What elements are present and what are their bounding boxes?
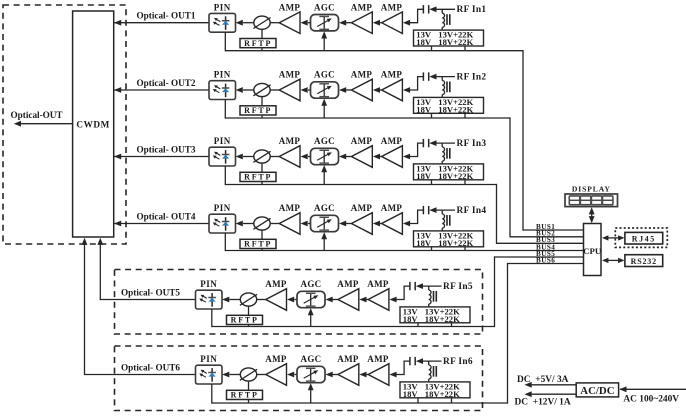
inductor L2: [442, 77, 450, 98]
svg-text:AMP: AMP: [265, 354, 287, 364]
inductor L1: [442, 9, 450, 30]
svg-text:18V: 18V: [416, 171, 432, 181]
RFTP box row 4: [240, 239, 276, 248]
svg-text:18V: 18V: [416, 104, 432, 114]
wire AMP2b to AGC2: [339, 87, 351, 93]
svg-text:RFTP: RFTP: [244, 173, 272, 182]
label PIN5: [200, 279, 217, 289]
wire attenuator 2 control: [261, 97, 263, 118]
wire AGC2 to AMP2a: [301, 87, 312, 93]
capacitor C6: [410, 357, 415, 365]
svg-text:AC/DC: AC/DC: [580, 385, 614, 397]
bias box B5 stubs: [418, 323, 452, 327]
bias selector box B1: [414, 30, 484, 47]
wire rail row4 to BUS4: [432, 250, 584, 252]
wire AMP2c to AMP2b: [373, 87, 382, 93]
label PIN6: [200, 354, 217, 364]
wire AC input: [619, 386, 686, 392]
CPU U7: [583, 224, 602, 276]
label Optical- OUT3: [137, 144, 196, 154]
label RF In6: [443, 357, 473, 367]
wire rail row3 to BUS3: [432, 184, 584, 244]
wire capacitor C1 to AMP1c: [403, 9, 423, 25]
svg-text:18V+22K: 18V+22K: [438, 37, 473, 47]
wire optical output arrow: [14, 121, 73, 127]
label Optical- OUT5: [121, 287, 180, 297]
variable attenuator A6: [240, 368, 257, 381]
amplifier AMP6a: [256, 354, 287, 385]
AGC attenuator U4: [311, 203, 339, 232]
photodiode PIN5: [196, 290, 223, 309]
svg-text:PIN: PIN: [214, 203, 231, 213]
wire AMP1b to AGC1: [339, 20, 351, 26]
RFTP box row 6: [227, 390, 263, 399]
wire PIN5 to CWDM: [97, 238, 195, 300]
AGC attenuator U2: [311, 70, 339, 99]
svg-text:Optical-OUT: Optical-OUT: [11, 110, 63, 120]
wire display to CPU: [589, 207, 595, 223]
wire attenuator 5 control: [248, 306, 250, 326]
label Optical- OUT4: [137, 211, 196, 221]
wire PIN3 to CWDM: [114, 154, 209, 160]
svg-text:AMP: AMP: [367, 354, 389, 364]
svg-text:Optical- OUT2: Optical- OUT2: [137, 78, 196, 88]
AGC6 control wire: [308, 383, 314, 403]
wire rail row2 to BUS2: [432, 117, 584, 237]
wire AGC1 to AMP1a: [301, 20, 312, 26]
amplifier AMP4c: [381, 203, 403, 234]
inductor L5: [429, 286, 437, 307]
wire PIN1 to CWDM: [114, 20, 209, 26]
amplifier AMP3a: [270, 136, 301, 167]
label Optical-OUT: [11, 110, 63, 120]
wire CPU to RJ45: [602, 235, 625, 240]
capacitor C1: [423, 5, 428, 13]
wire capacitor C5 to AMP5c: [389, 286, 409, 302]
svg-text:AMP: AMP: [279, 2, 301, 12]
svg-text:Optical- OUT5: Optical- OUT5: [121, 287, 180, 297]
label PIN1: [214, 2, 231, 12]
amplifier AMP5b: [337, 279, 359, 310]
bias selector box B3: [414, 164, 484, 181]
AGC attenuator U1: [311, 2, 339, 31]
label PIN4: [214, 203, 231, 213]
svg-text:18V+22K: 18V+22K: [438, 104, 473, 114]
RJ45 port: [625, 232, 663, 244]
RFTP box row 5: [227, 315, 263, 324]
svg-text:Optical- OUT1: Optical- OUT1: [137, 11, 196, 21]
svg-text:AMP: AMP: [351, 203, 373, 213]
wire PIN1 bottom to bias rail: [225, 32, 431, 51]
svg-text:AGC: AGC: [314, 2, 335, 12]
label BUS6: [536, 256, 555, 264]
photodiode PIN4: [209, 214, 236, 233]
label DC +5V/3A: [517, 375, 569, 385]
svg-text:AMP: AMP: [381, 136, 403, 146]
amplifier AMP1b: [351, 2, 373, 33]
wire attenuator to PIN4: [236, 221, 254, 227]
bias box B1 stubs: [432, 46, 466, 51]
label PIN2: [214, 70, 231, 80]
wire PIN2 to CWDM: [114, 87, 209, 93]
wire AGC4 to AMP4a: [301, 221, 312, 227]
wire CPU to RS232: [602, 258, 625, 263]
label Optical- OUT2: [137, 78, 196, 88]
svg-text:18V+22K: 18V+22K: [438, 238, 473, 248]
svg-text:RF In5: RF In5: [443, 282, 473, 292]
label PIN3: [214, 136, 231, 146]
label RF In2: [457, 72, 487, 82]
photodiode PIN1: [209, 13, 236, 32]
wire AMP6c to AMP6b: [359, 372, 368, 378]
svg-text:AGC: AGC: [314, 136, 335, 146]
bias selector box B4: [414, 231, 484, 248]
label RF In5: [443, 282, 473, 292]
svg-text:BUS6: BUS6: [536, 256, 555, 264]
amplifier AMP1a: [270, 2, 301, 33]
wire attenuator to PIN3: [236, 154, 254, 160]
svg-text:AMP: AMP: [337, 354, 359, 364]
svg-text:AMP: AMP: [279, 70, 301, 80]
display module: [565, 194, 618, 207]
svg-text:AMP: AMP: [337, 279, 359, 289]
bias selector box B6: [400, 382, 470, 399]
label BUS4: [536, 243, 555, 251]
AGC4 control wire: [321, 232, 327, 250]
wire RF In6 input: [416, 358, 442, 364]
bias box B3 stubs: [432, 180, 466, 185]
wire AMP6b to AGC6: [326, 372, 338, 378]
wire PIN2 bottom to bias rail: [225, 99, 431, 118]
svg-text:Optical- OUT6: Optical- OUT6: [121, 362, 180, 372]
svg-text:AMP: AMP: [381, 203, 403, 213]
svg-text:18V: 18V: [416, 238, 432, 248]
wire AGC6 to AMP6a: [287, 372, 298, 378]
CWDM multiplexer U-CWDM: [73, 11, 114, 237]
svg-text:AC 100~240V: AC 100~240V: [623, 395, 679, 405]
wire AGC5 to AMP5a: [287, 297, 298, 303]
wire attenuator to PIN2: [236, 87, 254, 93]
amplifier AMP4b: [351, 203, 373, 234]
wire RF In1 input: [429, 6, 455, 12]
label DISPLAY: [572, 185, 611, 194]
wire AMP5b to AGC5: [326, 297, 338, 303]
svg-text:DISPLAY: DISPLAY: [572, 185, 611, 194]
wire attenuator 6 control: [248, 381, 250, 403]
AGC2 control wire: [321, 99, 327, 118]
wire AMP5c to AMP5b: [359, 297, 368, 303]
amplifier AMP6c: [367, 354, 389, 385]
svg-text:PIN: PIN: [200, 279, 217, 289]
amplifier AMP2a: [270, 70, 301, 101]
bias selector box B5: [400, 307, 470, 324]
svg-text:Optical- OUT3: Optical- OUT3: [137, 144, 196, 154]
amplifier AMP6b: [337, 354, 359, 385]
svg-text:AMP: AMP: [381, 2, 403, 12]
wire AMP1c to AMP1b: [373, 20, 382, 26]
svg-text:18V: 18V: [416, 37, 432, 47]
amplifier AMP2c: [381, 70, 403, 101]
label BUS1: [536, 223, 555, 231]
bias box B2 stubs: [432, 113, 466, 118]
wire AGC3 to AMP3a: [301, 154, 312, 160]
inductor L4: [442, 210, 450, 231]
svg-text:AGC: AGC: [314, 203, 335, 213]
amplifier AMP3c: [381, 136, 403, 167]
dashed enclosure channel 6: [115, 346, 483, 411]
AGC attenuator U6: [297, 354, 325, 382]
svg-text:RFTP: RFTP: [244, 240, 272, 249]
svg-text:RJ45: RJ45: [632, 234, 656, 243]
wire AMP3c to AMP3b: [373, 154, 382, 160]
svg-text:AMP: AMP: [279, 203, 301, 213]
wire attenuator to PIN6: [222, 372, 240, 378]
svg-text:AGC: AGC: [314, 70, 335, 80]
svg-text:RFTP: RFTP: [244, 106, 272, 115]
variable attenuator A3: [253, 150, 270, 163]
svg-text:RFTP: RFTP: [231, 391, 259, 400]
wire capacitor C6 to AMP6c: [389, 361, 409, 377]
variable attenuator A5: [240, 293, 257, 306]
svg-text:18V: 18V: [403, 389, 419, 399]
photodiode PIN2: [209, 81, 236, 100]
AC/DC converter PS1: [576, 383, 618, 397]
wire capacitor C3 to AMP3c: [403, 143, 423, 159]
bias box B6 stubs: [418, 398, 452, 403]
svg-text:18V: 18V: [403, 314, 419, 324]
label Optical- OUT6: [121, 362, 180, 372]
amplifier AMP1c: [381, 2, 403, 33]
dashed enclosure channel 5: [115, 270, 483, 335]
wire RF In3 input: [429, 140, 455, 146]
wire capacitor C2 to AMP2c: [403, 77, 423, 93]
label AC 100~240V: [623, 395, 679, 405]
svg-text:AMP: AMP: [265, 279, 287, 289]
AGC attenuator U3: [311, 136, 339, 165]
wire AMP3b to AGC3: [339, 154, 351, 160]
svg-text:RFTP: RFTP: [244, 39, 272, 48]
RFTP box row 1: [240, 39, 276, 48]
svg-text:AMP: AMP: [351, 136, 373, 146]
label BUS2: [536, 230, 555, 238]
label RF In3: [457, 139, 487, 149]
bias selector box B2: [414, 97, 484, 114]
wire DC 12V output: [525, 391, 577, 397]
wire PIN6 to CWDM: [82, 238, 196, 375]
label DC +12V/1A: [515, 397, 571, 407]
wire DC 5V output: [525, 382, 577, 388]
svg-text:18V+22K: 18V+22K: [438, 171, 473, 181]
label BUS3: [536, 236, 555, 244]
wire PIN6 bottom to bias rail: [212, 384, 418, 404]
amplifier AMP5c: [367, 279, 389, 310]
RFTP box row 2: [240, 106, 276, 115]
svg-text:RF In4: RF In4: [457, 206, 487, 216]
wire RF In5 input: [416, 283, 442, 289]
wire rail row1 to BUS1: [432, 50, 584, 231]
wire capacitor C4 to AMP4c: [403, 210, 423, 226]
label RF In1: [457, 5, 487, 15]
wire attenuator 1 control: [261, 29, 263, 50]
svg-text:DC +12V/ 1A: DC +12V/ 1A: [515, 397, 571, 407]
svg-text:PIN: PIN: [214, 2, 231, 12]
svg-text:AGC: AGC: [301, 354, 322, 364]
label RF In4: [457, 206, 487, 216]
capacitor C3: [423, 139, 428, 147]
svg-text:PIN: PIN: [214, 70, 231, 80]
AGC5 control wire: [308, 308, 314, 326]
bias box B4 stubs: [432, 247, 466, 251]
svg-text:DC +5V/ 3A: DC +5V/ 3A: [517, 375, 569, 385]
svg-text:CPU: CPU: [583, 246, 602, 256]
svg-text:AMP: AMP: [381, 70, 403, 80]
wire PIN5 bottom to bias rail: [212, 309, 418, 327]
svg-text:AMP: AMP: [351, 70, 373, 80]
AGC1 control wire: [321, 31, 327, 50]
variable attenuator A4: [253, 217, 270, 230]
svg-text:18V+22K: 18V+22K: [425, 389, 460, 399]
wire attenuator to PIN1: [236, 20, 254, 26]
svg-text:AMP: AMP: [279, 136, 301, 146]
RJ45 port dashed enclosure: [615, 228, 667, 247]
RFTP box row 3: [240, 172, 276, 181]
capacitor C5: [410, 282, 415, 290]
wire PIN4 bottom to bias rail: [225, 233, 431, 251]
amplifier AMP2b: [351, 70, 373, 101]
svg-text:Optical- OUT4: Optical- OUT4: [137, 211, 196, 221]
wire RF In4 input: [429, 207, 455, 213]
wire PIN4 to CWDM: [114, 221, 209, 227]
svg-text:CWDM: CWDM: [76, 119, 110, 129]
svg-text:RFTP: RFTP: [231, 316, 259, 325]
wire attenuator 4 control: [261, 230, 263, 250]
label BUS5: [536, 250, 555, 258]
photodiode PIN6: [196, 365, 223, 384]
capacitor C2: [423, 72, 428, 80]
amplifier AMP5a: [256, 279, 287, 310]
AGC attenuator U5: [297, 279, 325, 307]
wire rail row6 to BUS6: [418, 263, 584, 404]
amplifier AMP4a: [270, 203, 301, 234]
svg-text:RF In3: RF In3: [457, 139, 487, 149]
wire PIN3 bottom to bias rail: [225, 166, 431, 185]
svg-text:PIN: PIN: [214, 136, 231, 146]
dashed enclosure optical output section: [3, 5, 126, 244]
svg-text:RF In1: RF In1: [457, 5, 487, 15]
svg-text:18V+22K: 18V+22K: [425, 314, 460, 324]
svg-text:RS232: RS232: [631, 257, 657, 266]
wire RF In2 input: [429, 74, 455, 80]
svg-text:AMP: AMP: [351, 2, 373, 12]
svg-text:AGC: AGC: [301, 279, 322, 289]
capacitor C4: [423, 206, 428, 214]
variable attenuator A1: [253, 16, 270, 29]
wire attenuator 3 control: [261, 163, 263, 184]
inductor L3: [442, 143, 450, 164]
wire rail row5 to BUS5: [418, 256, 584, 327]
svg-text:AMP: AMP: [367, 279, 389, 289]
RS232 port: [625, 255, 663, 267]
label Optical- OUT1: [137, 11, 196, 21]
variable attenuator A2: [253, 83, 270, 96]
AGC3 control wire: [321, 165, 327, 184]
svg-text:RF In6: RF In6: [443, 357, 473, 367]
inductor L6: [429, 361, 437, 382]
photodiode PIN3: [209, 147, 236, 166]
wire attenuator to PIN5: [222, 297, 240, 303]
amplifier AMP3b: [351, 136, 373, 167]
wire AMP4b to AGC4: [339, 221, 351, 227]
wire AMP4c to AMP4b: [373, 221, 382, 227]
svg-text:RF In2: RF In2: [457, 72, 487, 82]
svg-text:PIN: PIN: [200, 354, 217, 364]
